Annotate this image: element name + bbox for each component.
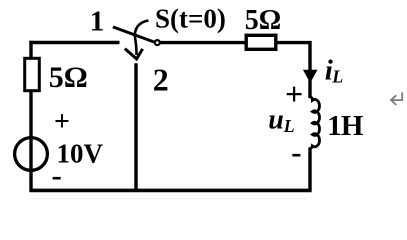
- resistor R1 5ohm (left, vertical box): [25, 58, 40, 90]
- paragraph return mark (gray): [391, 92, 402, 105]
- current arrow iL (filled triangle on right rail): [303, 70, 318, 83]
- wire: middle vertical (switch position 2 branch): [134, 63, 137, 190]
- svg-text:5Ω: 5Ω: [49, 61, 88, 94]
- svg-text:1: 1: [90, 5, 105, 37]
- svg-text:L: L: [283, 116, 295, 136]
- switch motion arc arrow: [135, 21, 149, 56]
- resistor R2 5ohm (top, horizontal box): [246, 35, 276, 49]
- svg-text:S(t=0): S(t=0): [155, 4, 226, 34]
- wire: left vertical rail: [29, 41, 32, 191]
- svg-text:-: -: [52, 158, 62, 193]
- svg-text:10V: 10V: [57, 139, 104, 169]
- svg-text:u: u: [268, 105, 284, 136]
- switch S contact circle: [155, 40, 160, 45]
- svg-text:2: 2: [153, 62, 169, 98]
- wire: top-left horizontal from left rail to switch pole 1: [29, 41, 119, 44]
- faint underline artifact at bottom: [30, 198, 307, 199]
- svg-text:5Ω: 5Ω: [245, 5, 281, 36]
- svg-text:+: +: [54, 107, 70, 138]
- svg-text:L: L: [331, 67, 343, 87]
- voltage source US circle (10V): [15, 138, 48, 171]
- wire: right vertical rail below inductor: [308, 148, 311, 191]
- wire: top horizontal from switch contact to top-right corner, down right rail: [160, 43, 310, 98]
- svg-text:1H: 1H: [327, 110, 364, 142]
- svg-text:-: -: [291, 135, 301, 170]
- inductor L coil (1H): [310, 97, 320, 149]
- wire: bottom horizontal rail: [29, 189, 311, 193]
- switch motion arrowhead: [125, 49, 143, 59]
- switch S blade: [113, 27, 154, 42]
- svg-text:+: +: [285, 76, 303, 112]
